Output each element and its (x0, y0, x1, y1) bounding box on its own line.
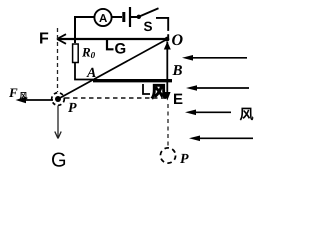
ball P (52, 93, 77, 116)
wire resistor to node A (75, 63, 93, 80)
wire switch to node O (156, 17, 168, 38)
wire ammeter to battery (112, 16, 122, 18)
svg-text:F: F (8, 85, 18, 100)
rod AB (93, 79, 172, 82)
wind arrow 4 (189, 136, 253, 142)
string OP (58, 40, 167, 100)
force G arrow (51, 106, 67, 172)
svg-text:F: F (39, 31, 49, 48)
svg-text:P: P (180, 152, 189, 167)
dashed plumb line through F (57, 28, 59, 92)
rail FO with left arrowhead (57, 34, 167, 44)
svg-text:G: G (51, 150, 67, 169)
svg-text:S: S (144, 19, 153, 34)
ammeter A (94, 9, 111, 26)
wire battery to switch (131, 16, 137, 18)
wind arrow 2 (186, 85, 249, 91)
battery (124, 7, 130, 27)
svg-text:风: 风 (20, 92, 28, 101)
wind tick label (143, 84, 167, 101)
wind arrow 1 (182, 55, 247, 61)
switch S (137, 8, 159, 34)
resistor R0 (73, 44, 96, 63)
svg-text:E: E (173, 91, 183, 108)
node G tick (107, 40, 126, 58)
dashed horizontal P to E (65, 97, 164, 99)
wire from rail to ammeter (75, 17, 95, 43)
force F_wind arrow (8, 85, 53, 103)
wind arrow 3 (185, 110, 231, 116)
svg-text:P: P (68, 101, 77, 116)
plumb line OE with double arrowheads (164, 42, 171, 101)
dashed string E to lower ball (167, 104, 169, 147)
svg-text:A: A (99, 13, 107, 25)
ball P dashed (160, 148, 189, 167)
svg-text:O: O (172, 32, 184, 49)
svg-text:B: B (172, 63, 183, 79)
node O (165, 32, 184, 49)
svg-text:G: G (115, 41, 127, 58)
svg-text:风: 风 (240, 106, 254, 122)
